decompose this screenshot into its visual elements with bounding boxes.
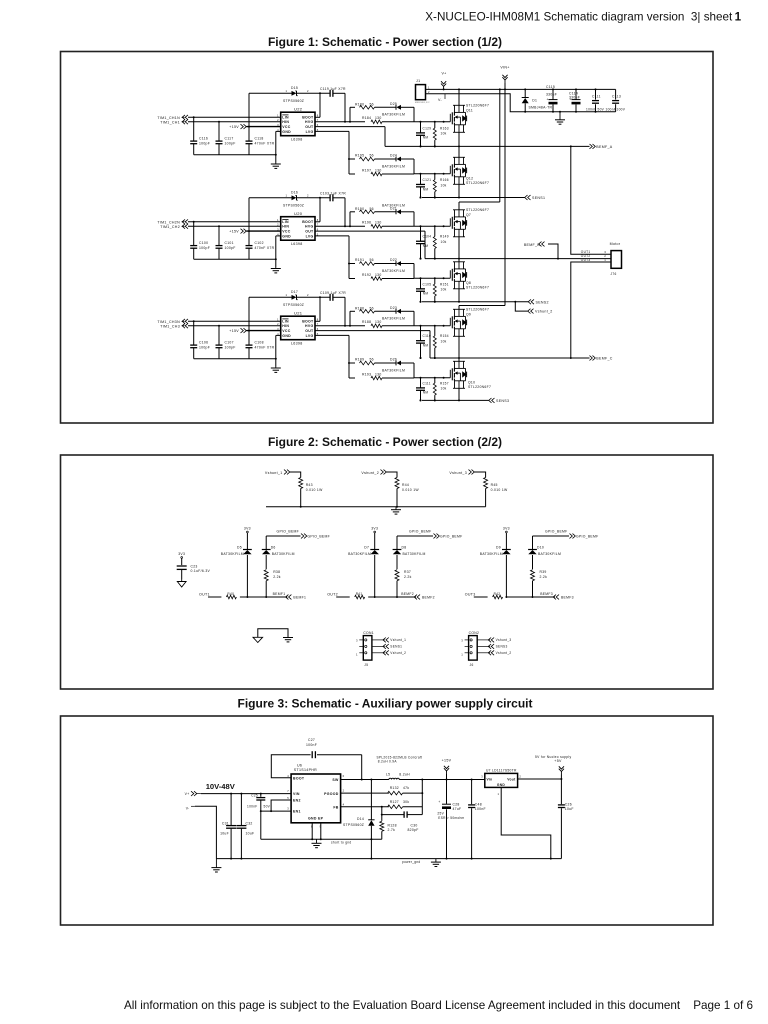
- wire: [315, 311, 365, 327]
- wire: [349, 377, 414, 379]
- wire: [403, 792, 424, 794]
- svg-text:CON2: CON2: [469, 631, 480, 635]
- port GPIO_BEMF: [397, 529, 462, 549]
- port Vshunt_2: [528, 309, 553, 314]
- svg-text:130: 130: [375, 169, 382, 173]
- svg-text:C116: C116: [199, 137, 208, 141]
- svg-text:C27: C27: [308, 738, 315, 742]
- svg-text:R127: R127: [390, 800, 399, 804]
- wire HVG gate phase B: [414, 225, 450, 227]
- svg-text:HIN: HIN: [282, 225, 289, 229]
- wire shunt gnd bus: [266, 506, 486, 508]
- wire: [247, 126, 281, 128]
- svg-text:Figure 1: Schematic - Power se: Figure 1: Schematic - Power section (1/2…: [268, 35, 502, 49]
- ground tie: [253, 629, 293, 643]
- svg-text:3V3: 3V3: [244, 526, 251, 530]
- transistor Q9: [450, 306, 489, 359]
- svg-text:Q9: Q9: [466, 312, 471, 316]
- port TIM1_CH1: [160, 119, 188, 124]
- svg-text:R188: R188: [362, 320, 371, 324]
- port TIM1_CH1N: [157, 115, 188, 120]
- svg-text:+: +: [438, 800, 440, 804]
- svg-text:BAT30KFILM: BAT30KFILM: [221, 552, 244, 556]
- svg-text:130: 130: [375, 116, 382, 120]
- svg-text:SENS3: SENS3: [496, 399, 509, 403]
- svg-text:C102: C102: [255, 241, 264, 245]
- wire: [247, 230, 281, 232]
- capacitor C108: [246, 330, 275, 359]
- svg-text:R190: R190: [355, 207, 364, 211]
- svg-text:L6398: L6398: [291, 242, 303, 246]
- capacitor C119: [320, 87, 346, 97]
- svg-text:130: 130: [375, 373, 382, 377]
- svg-text:BEMF2: BEMF2: [422, 595, 435, 599]
- svg-text:R43: R43: [306, 483, 313, 487]
- svg-text:PGOOD: PGOOD: [324, 792, 339, 796]
- svg-text:D6: D6: [271, 546, 276, 550]
- wire SENS1: [420, 197, 525, 199]
- diode D17: [283, 290, 309, 307]
- wire: [401, 159, 414, 174]
- svg-text:GPIO_BEMF: GPIO_BEMF: [409, 529, 431, 533]
- connector J1: [415, 79, 430, 104]
- svg-text:R45: R45: [491, 483, 498, 487]
- svg-text:J76: J76: [611, 272, 617, 276]
- svg-text:STL220N6F7: STL220N6F7: [466, 181, 489, 185]
- svg-text:SENS1: SENS1: [532, 196, 545, 200]
- svg-text:2: 2: [519, 774, 521, 778]
- svg-text:2: 2: [307, 89, 309, 93]
- resistor R186: [355, 307, 375, 314]
- diode D25: [382, 102, 405, 117]
- wire OUT3 from phase C: [571, 262, 611, 358]
- svg-text:BAT30KFILM: BAT30KFILM: [382, 269, 405, 273]
- svg-text:4: 4: [287, 774, 289, 778]
- diode D9: [480, 546, 511, 597]
- svg-text:100V: 100V: [617, 107, 626, 111]
- figure 2 border: [61, 455, 714, 689]
- svg-text:1: 1: [735, 11, 742, 24]
- svg-text:OUT: OUT: [305, 329, 314, 333]
- svg-text:OUT3: OUT3: [581, 258, 591, 262]
- svg-text:10k: 10k: [441, 288, 447, 292]
- svg-text:3V3: 3V3: [178, 552, 185, 556]
- diode D6: [262, 546, 295, 570]
- port Vshunt_2: [361, 470, 397, 478]
- svg-text:100pF: 100pF: [225, 345, 236, 349]
- svg-text:EN2: EN2: [293, 799, 301, 803]
- wire: [349, 278, 414, 280]
- svg-text:D9: D9: [496, 546, 501, 550]
- svg-text:+5V: +5V: [554, 759, 562, 763]
- svg-text:+15V: +15V: [442, 759, 452, 763]
- svg-text:Vshunt_3: Vshunt_3: [449, 471, 467, 475]
- svg-text:10uF: 10uF: [220, 832, 229, 836]
- svg-text:BAT30KFILM: BAT30KFILM: [538, 552, 561, 556]
- port +15V: [442, 759, 452, 780]
- transistor Q7: [450, 202, 489, 259]
- port SENS2: [528, 299, 549, 304]
- ground: [177, 579, 186, 587]
- svg-text:C101: C101: [225, 241, 234, 245]
- transistor Q10: [450, 358, 491, 400]
- svg-text:D15: D15: [291, 86, 298, 90]
- svg-text:25V: 25V: [437, 812, 444, 816]
- wire SENS2: [420, 301, 529, 303]
- svg-text:3: 3: [481, 774, 483, 778]
- resistor R197: [362, 169, 382, 176]
- wire FB node: [341, 806, 389, 808]
- svg-text:Q8: Q8: [466, 281, 471, 285]
- capacitor C102: [246, 230, 275, 259]
- resistor R128: [380, 814, 397, 840]
- svg-text:100pF: 100pF: [225, 246, 236, 250]
- svg-text:1: 1: [498, 792, 500, 796]
- svg-text:4: 4: [343, 802, 345, 806]
- wire phase A / node A: [385, 145, 590, 147]
- svg-text:10V-48V: 10V-48V: [206, 782, 236, 791]
- svg-text:OUT3: OUT3: [465, 592, 476, 596]
- resistor R196: [362, 220, 382, 228]
- wire: [382, 325, 414, 327]
- svg-text:1: 1: [286, 89, 288, 93]
- regulator U6: [287, 764, 344, 829]
- svg-text:ESR > 50mohm: ESR > 50mohm: [438, 816, 464, 820]
- regulator U7: [481, 769, 521, 797]
- wire: [315, 231, 425, 259]
- svg-text:C31: C31: [222, 822, 229, 826]
- capacitor C121: [416, 173, 431, 199]
- svg-text:100pF: 100pF: [199, 141, 210, 145]
- svg-text:+: +: [570, 98, 572, 102]
- svg-text:GPIO_BEMF: GPIO_BEMF: [545, 529, 567, 533]
- wire: [249, 93, 292, 126]
- capacitor C111: [586, 89, 605, 111]
- footer text: [124, 999, 753, 1012]
- svg-text:4: 4: [277, 128, 279, 132]
- svg-text:+15V: +15V: [229, 125, 239, 129]
- port GPIO_BEMF: [533, 529, 599, 549]
- svg-text:BAT30KFILM: BAT30KFILM: [403, 552, 426, 556]
- port 3V3: [178, 552, 185, 565]
- svg-text:OUT: OUT: [305, 230, 314, 234]
- wire Vout: [518, 778, 563, 780]
- svg-text:NM: NM: [423, 391, 429, 395]
- svg-text:D23: D23: [390, 306, 397, 310]
- pin Vshunt_3: [465, 638, 512, 643]
- wire U7 gnd: [501, 787, 551, 858]
- port VIN+: [500, 66, 509, 90]
- svg-text:8.2uH: 8.2uH: [399, 772, 410, 776]
- svg-text:1: 1: [604, 258, 606, 262]
- svg-text:56: 56: [370, 153, 374, 157]
- diode D26: [382, 358, 405, 373]
- capacitor C110: [416, 325, 431, 359]
- svg-text:1: 1: [277, 318, 279, 322]
- wire: [375, 106, 397, 108]
- svg-text:NM: NM: [423, 187, 429, 191]
- resistor R41: [355, 592, 365, 599]
- svg-text:Figure 2: Schematic - Power se: Figure 2: Schematic - Power section (2/2…: [268, 435, 502, 449]
- resistor R191: [355, 258, 375, 265]
- resistor R132: [388, 786, 410, 795]
- svg-text:C111: C111: [423, 381, 431, 385]
- wire VIN line: [201, 793, 291, 795]
- svg-text:GPIO_BEMF: GPIO_BEMF: [277, 529, 299, 533]
- wire: [315, 296, 321, 321]
- capacitor C30: [404, 811, 419, 832]
- svg-text:SW: SW: [332, 778, 339, 782]
- gate driver U22: [277, 106, 319, 141]
- wire: [401, 363, 414, 378]
- svg-text:BEMF_B: BEMF_B: [524, 243, 540, 247]
- svg-text:Q11: Q11: [466, 108, 473, 112]
- svg-text:MKDSN1,5/2: MKDSN1,5/2: [415, 102, 430, 104]
- wire: [382, 121, 414, 123]
- svg-text:1: 1: [286, 194, 288, 198]
- figure 3 title: [238, 697, 533, 711]
- svg-text:C25: C25: [251, 793, 258, 797]
- wire VIN bus: [426, 88, 616, 90]
- svg-text:10k: 10k: [441, 132, 447, 136]
- svg-text:D8: D8: [402, 546, 407, 550]
- svg-text:STL220N6F7: STL220N6F7: [466, 286, 489, 290]
- port +15V: [229, 328, 248, 333]
- svg-text:130: 130: [375, 220, 382, 224]
- svg-text:J5: J5: [364, 663, 368, 667]
- svg-text:R39: R39: [540, 570, 547, 574]
- svg-text:R151: R151: [440, 282, 449, 286]
- svg-text:D1: D1: [532, 99, 537, 103]
- svg-text:100nF: 100nF: [606, 107, 617, 111]
- svg-text:OUT2: OUT2: [327, 592, 338, 596]
- wire: [403, 806, 423, 808]
- svg-text:D16: D16: [291, 191, 298, 195]
- wire V- return: [426, 94, 616, 113]
- svg-text:R186: R186: [355, 307, 364, 311]
- svg-text:VIN: VIN: [293, 792, 300, 796]
- svg-text:short to gnd: short to gnd: [331, 841, 351, 845]
- resistor R180: [355, 103, 375, 110]
- svg-text:0.010 1W: 0.010 1W: [491, 488, 508, 492]
- wire power gnd rail: [216, 858, 561, 860]
- wire: [315, 236, 355, 279]
- wire: [368, 596, 416, 598]
- capacitor C111: [416, 377, 431, 402]
- svg-text:STPS0560Z: STPS0560Z: [283, 204, 304, 208]
- svg-text:100pF: 100pF: [199, 345, 210, 349]
- wire: [188, 320, 281, 322]
- port V+: [441, 72, 447, 91]
- svg-text:TIM1_CH1: TIM1_CH1: [160, 120, 180, 124]
- svg-text:R157: R157: [440, 381, 449, 385]
- svg-text:BAT30KFILM: BAT30KFILM: [480, 552, 503, 556]
- resistor R193: [362, 373, 382, 380]
- svg-text:ST1S14PHR: ST1S14PHR: [294, 768, 317, 772]
- svg-text:HVG: HVG: [305, 225, 314, 229]
- svg-text:2: 2: [307, 293, 309, 297]
- svg-text:R193: R193: [362, 373, 371, 377]
- resistor R195: [355, 153, 375, 160]
- svg-text:All information on this page i: All information on this page is subject …: [124, 999, 681, 1012]
- svg-text:2: 2: [277, 223, 279, 227]
- wire: [375, 362, 397, 364]
- svg-text:C111: C111: [592, 94, 601, 98]
- svg-text:D24: D24: [390, 154, 397, 158]
- capacitor C115: [546, 85, 558, 112]
- port BEMF_A: [590, 144, 613, 149]
- svg-text:0.010 1W: 0.010 1W: [402, 488, 419, 492]
- svg-text:HIN: HIN: [282, 120, 289, 124]
- wire: [297, 92, 331, 94]
- wire C30 row: [382, 807, 423, 815]
- wire EN tie: [260, 800, 291, 812]
- svg-text:BAT30KFILM: BAT30KFILM: [382, 204, 405, 208]
- svg-text:130: 130: [375, 320, 382, 324]
- resistor R43: [299, 478, 323, 507]
- transistor Q8: [450, 259, 489, 302]
- svg-text:R41: R41: [356, 592, 363, 596]
- svg-text:TIM1_CH2: TIM1_CH2: [160, 225, 180, 229]
- svg-text:C121: C121: [423, 178, 432, 182]
- svg-text:4: 4: [277, 332, 279, 336]
- text power_gnd: [402, 860, 420, 864]
- wire LVG gate phase B: [414, 277, 450, 279]
- wire: [188, 325, 281, 327]
- svg-text:C115: C115: [546, 85, 555, 89]
- svg-text:L5: L5: [386, 772, 390, 776]
- svg-text:BOOT: BOOT: [302, 320, 314, 324]
- capacitor C114: [569, 89, 581, 111]
- diode D8: [393, 546, 426, 570]
- svg-text:C32: C32: [246, 822, 253, 826]
- svg-text:Vin: Vin: [487, 777, 493, 781]
- svg-text:J1: J1: [416, 79, 420, 83]
- diode D22: [382, 258, 405, 273]
- svg-text:+15V: +15V: [229, 230, 239, 234]
- wire: [249, 297, 292, 330]
- svg-text:10k: 10k: [441, 340, 447, 344]
- resistor R190: [355, 207, 375, 214]
- svg-text:BAT30KFILM: BAT30KFILM: [272, 552, 295, 556]
- figure 1 border: [61, 52, 714, 424]
- svg-text:OUT1: OUT1: [199, 592, 210, 596]
- diode D1: [522, 89, 553, 111]
- capacitor C118: [246, 126, 275, 155]
- svg-text:D5: D5: [237, 546, 242, 550]
- wire: [247, 330, 281, 332]
- svg-text:2.7k: 2.7k: [388, 828, 396, 832]
- svg-text:BAT30KFILM: BAT30KFILM: [348, 552, 371, 556]
- svg-text:1: 1: [461, 653, 463, 657]
- wire: [188, 225, 281, 227]
- svg-text:STL220N6F7: STL220N6F7: [466, 104, 489, 108]
- diode D23: [382, 306, 405, 321]
- svg-text:V-: V-: [186, 807, 190, 811]
- resistor R45: [484, 478, 508, 507]
- svg-text:C106: C106: [199, 341, 208, 345]
- svg-text:U6: U6: [297, 764, 302, 768]
- figure 3 border: [61, 716, 714, 925]
- wire: [315, 127, 385, 147]
- ground EP: [312, 839, 322, 847]
- svg-text:C48: C48: [475, 802, 482, 806]
- svg-text:C103 1uF X7R: C103 1uF X7R: [320, 191, 346, 195]
- wire: [401, 311, 414, 326]
- svg-text:GND EP: GND EP: [308, 817, 324, 821]
- svg-text:+15V: +15V: [229, 329, 239, 333]
- svg-text:VCC: VCC: [282, 230, 290, 234]
- svg-text:HIN: HIN: [282, 324, 289, 328]
- svg-text:Vshunt_2: Vshunt_2: [496, 651, 512, 655]
- text short to gnd: [331, 841, 351, 845]
- port +5V: [535, 755, 571, 779]
- pin numbers: [356, 638, 358, 656]
- pin Vshunt_2: [465, 650, 512, 655]
- port 3V3: [244, 526, 251, 549]
- wire: [333, 198, 346, 228]
- svg-text:R44: R44: [402, 483, 409, 487]
- wire: [375, 310, 397, 312]
- svg-text:NM: NM: [423, 344, 429, 348]
- wire phase B / node B: [420, 258, 612, 260]
- svg-text:C129: C129: [423, 126, 432, 130]
- wire: [188, 221, 281, 223]
- svg-text:56: 56: [370, 103, 374, 107]
- wire drain feed B: [459, 89, 500, 202]
- svg-text:X-NUCLEO-IHM08M1 Schematic dia: X-NUCLEO-IHM08M1 Schematic diagram versi…: [425, 11, 733, 24]
- svg-text:3V3: 3V3: [371, 526, 378, 530]
- capacitor C106: [190, 320, 210, 358]
- pin Vshunt_2: [359, 650, 406, 655]
- wire: [375, 211, 397, 213]
- diode D14: [343, 780, 375, 859]
- svg-text:Q10: Q10: [468, 380, 475, 384]
- svg-text:56: 56: [370, 307, 374, 311]
- resistor R38: [264, 570, 281, 597]
- port OUT1: [199, 592, 221, 597]
- wire: [505, 596, 555, 598]
- port Vshunt_1: [265, 470, 301, 478]
- svg-text:STL220N6F7: STL220N6F7: [468, 385, 491, 389]
- svg-text:VIN+: VIN+: [500, 66, 509, 70]
- wire phase C / node C: [420, 357, 590, 359]
- port GPIO_BEMF: [266, 529, 330, 549]
- svg-text:C117: C117: [225, 137, 234, 141]
- svg-text:FB: FB: [333, 805, 338, 809]
- svg-text:820pF: 820pF: [408, 828, 419, 832]
- svg-text:SMBJ48A-TR: SMBJ48A-TR: [529, 106, 553, 110]
- svg-text:470nF X7R: 470nF X7R: [255, 246, 275, 250]
- svg-text:47uF: 47uF: [453, 807, 462, 811]
- ground: [211, 859, 221, 872]
- svg-text:Vout: Vout: [507, 777, 516, 781]
- svg-text:D10: D10: [537, 546, 544, 550]
- capacitor C28: [437, 780, 464, 859]
- svg-text:STL220N6F7: STL220N6F7: [466, 208, 489, 212]
- wire: [333, 93, 346, 123]
- connector CON1: [363, 631, 374, 667]
- svg-text:BEMF_A: BEMF_A: [596, 145, 612, 149]
- resistor R149: [433, 225, 449, 259]
- svg-text:7: 7: [287, 789, 289, 793]
- svg-text:2.2k: 2.2k: [273, 575, 281, 579]
- wire: [315, 335, 355, 378]
- svg-text:STPS0560Z: STPS0560Z: [283, 99, 304, 103]
- port TIM1_CH2N: [157, 219, 188, 224]
- wire: [194, 258, 276, 260]
- port 3V3: [503, 526, 510, 549]
